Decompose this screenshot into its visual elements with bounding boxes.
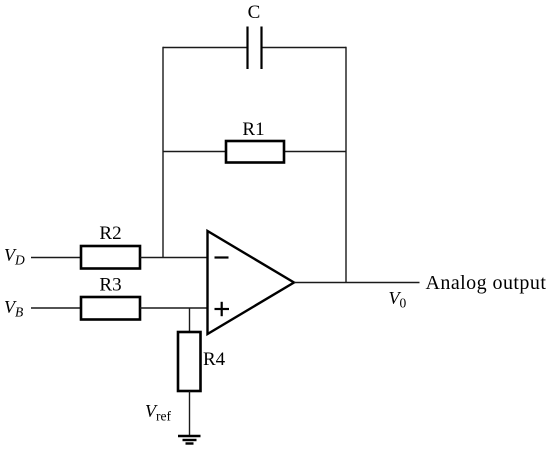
wire left vertical feedback (162, 47, 164, 258)
svg-text:C: C (248, 2, 261, 23)
resistor R1 (226, 141, 284, 163)
op-amp minus sign (215, 256, 229, 258)
capacitor C (248, 27, 262, 70)
resistor R4 (178, 332, 201, 391)
wire top feedback right segment (262, 47, 346, 49)
svg-text:R2: R2 (99, 223, 121, 244)
ground (178, 436, 201, 444)
op-amp plus sign (215, 302, 230, 316)
wire R2 to op-amp inverting input (140, 257, 208, 259)
wire R1 left (163, 151, 226, 153)
wire R4 to ground (189, 391, 191, 435)
resistor R3 (81, 297, 140, 320)
wire VD to R2 (31, 257, 81, 259)
wire R3 to op-amp non-inverting input (140, 307, 208, 309)
wire junction down to R4 (189, 308, 191, 332)
wire right vertical feedback (345, 47, 347, 283)
op-amp U1 (208, 231, 295, 334)
svg-text:R3: R3 (99, 275, 121, 296)
svg-text:Analog output: Analog output (426, 272, 547, 294)
svg-text:R4: R4 (203, 349, 226, 370)
wire top feedback left segment (163, 47, 247, 49)
wire output (294, 282, 420, 284)
svg-text:R1: R1 (242, 119, 264, 140)
wire R1 right (284, 151, 346, 153)
resistor R2 (81, 246, 140, 269)
wire VB to R3 (31, 307, 81, 309)
